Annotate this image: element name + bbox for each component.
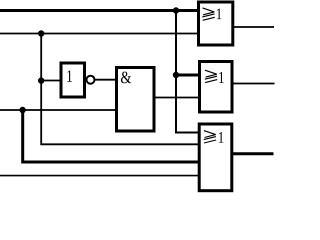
NOT gate label 1 — [67, 70, 72, 81]
wire branch from C down to bottom OR input 3 (thick) — [23, 110, 199, 162]
wire output of middle OR — [233, 83, 275, 85]
wire input A (top, thick) — [0, 9, 198, 12]
OR gate bottom label — [204, 131, 224, 143]
OR gate middle label — [205, 70, 224, 83]
wire input C — [0, 109, 116, 111]
junction dot on A-branch at middle OR input — [173, 72, 179, 78]
wire AND output to middle OR input 2 — [155, 97, 199, 99]
OR gate top label — [202, 8, 221, 20]
wire branch from A down to bottom OR input 1 — [176, 11, 199, 133]
AND gate label & — [121, 72, 131, 84]
wire branch from B down to bottom OR input 2 — [41, 34, 199, 145]
wire input D (bottom) — [0, 175, 199, 177]
AND gate box (&) — [117, 68, 155, 132]
NOT gate box (1) — [61, 63, 85, 97]
junction dot on C at x=23 — [19, 107, 25, 113]
wire branch from A to middle OR input 1 (thick) — [176, 74, 199, 77]
wire stub B-branch to NOT input — [41, 80, 60, 82]
wire output of bottom OR (thick) — [232, 152, 274, 155]
junction dot on B-branch at NOT input — [38, 77, 44, 83]
wire output of top OR — [234, 26, 275, 28]
OR gate bottom box — [199, 124, 232, 191]
wire NOT output to AND input 1 — [95, 79, 118, 81]
junction dot on B at x=41 — [38, 30, 44, 36]
OR gate top box — [199, 2, 233, 45]
NOT gate inversion bubble — [87, 76, 95, 84]
junction dot on A at x=176 — [173, 7, 179, 13]
OR gate middle box — [200, 62, 233, 113]
wire input B — [0, 33, 198, 35]
